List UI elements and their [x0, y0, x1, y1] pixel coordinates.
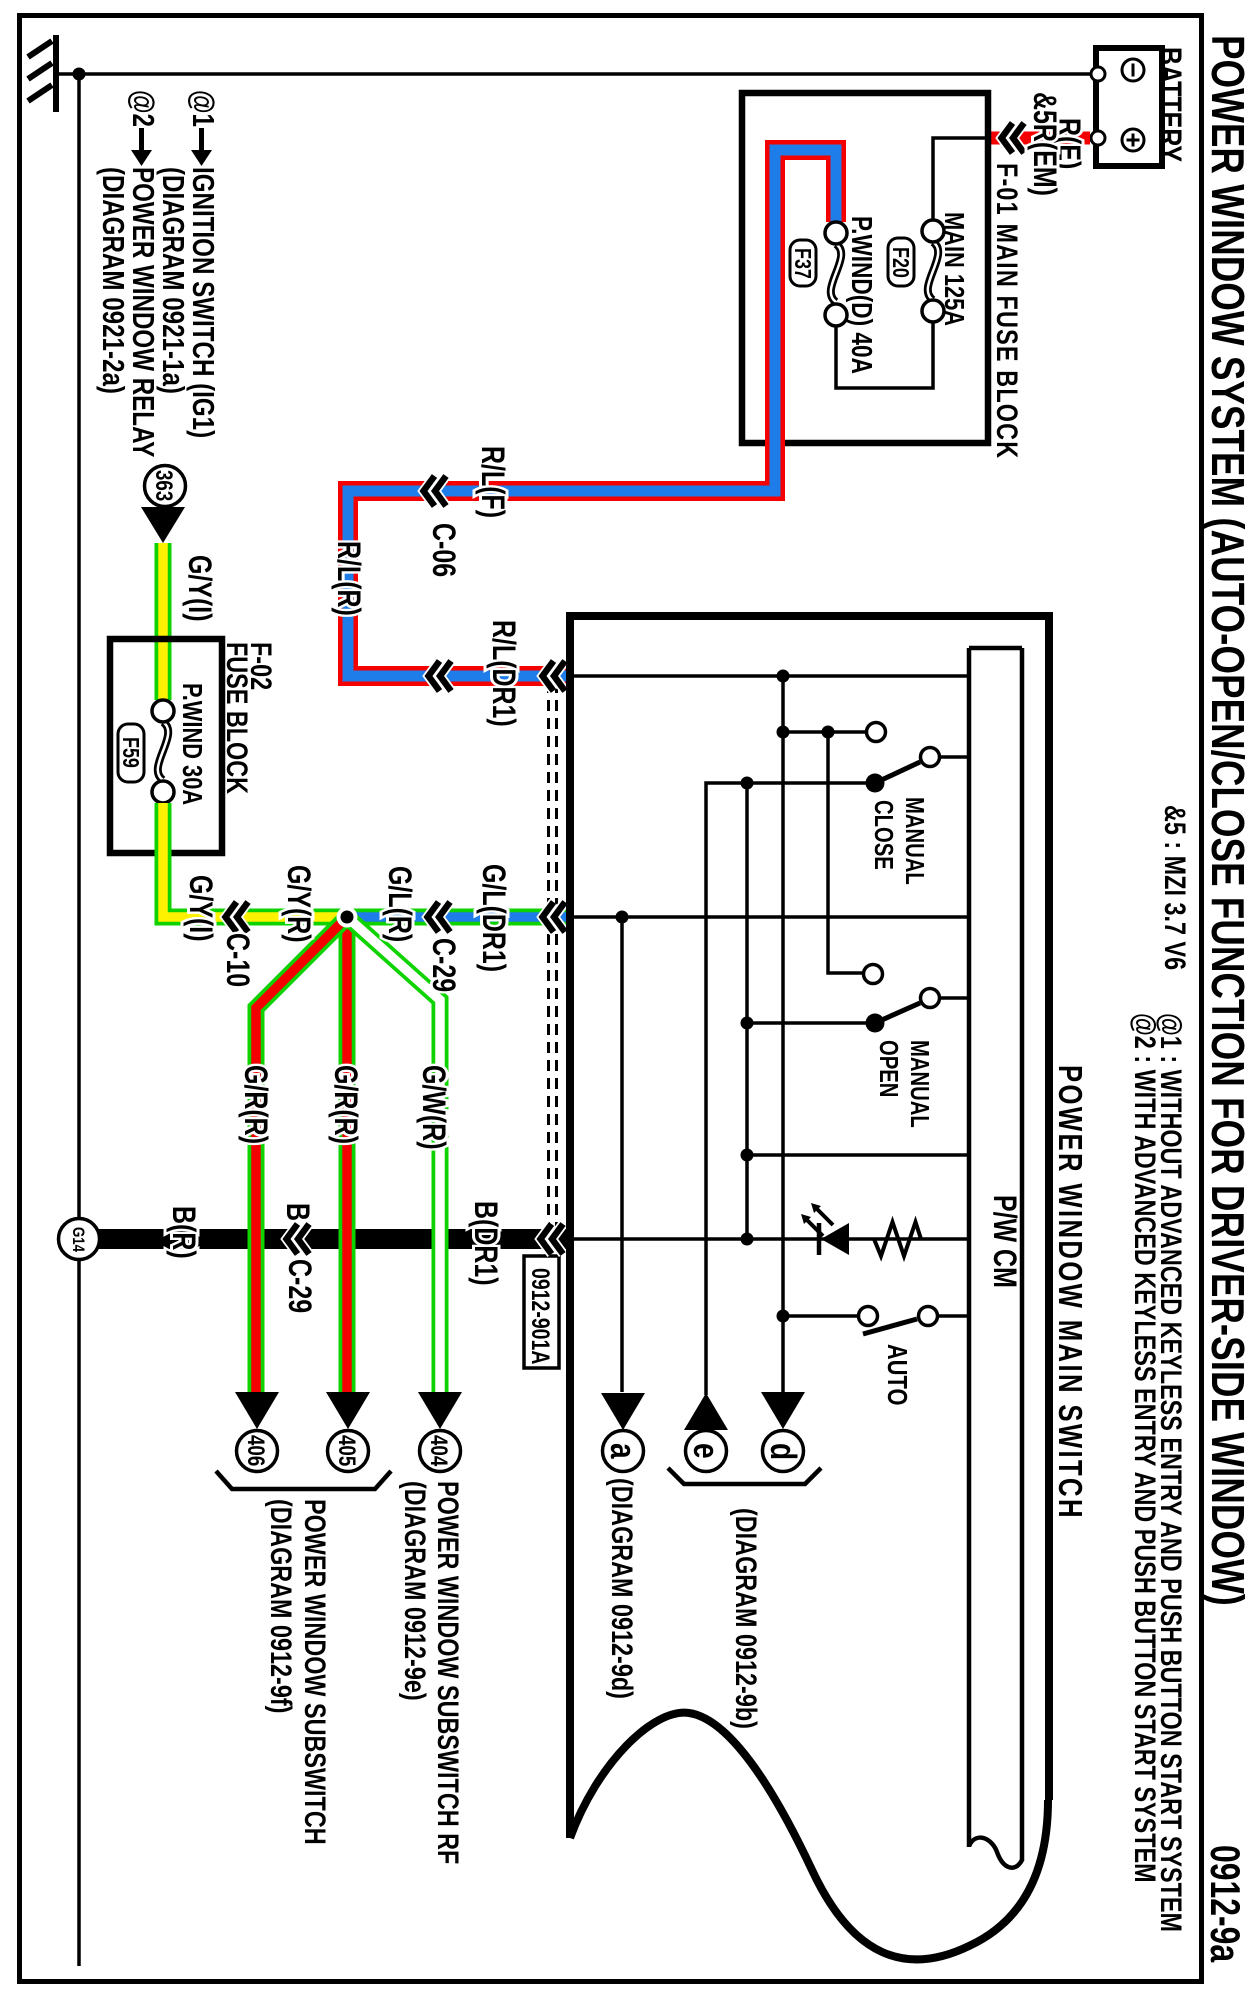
svg-text:POWER WINDOW SUBSWITCH RF: POWER WINDOW SUBSWITCH RF [431, 1481, 464, 1864]
svg-text:B: B [279, 1203, 315, 1221]
svg-text:@2: @2 [126, 90, 161, 127]
svg-text:C-06: C-06 [425, 523, 461, 577]
svg-text:e: e [686, 1443, 726, 1459]
svg-text:&5 : MZI 3.7 V6: &5 : MZI 3.7 V6 [1158, 805, 1191, 970]
svg-text:0912-9a: 0912-9a [1202, 1845, 1245, 1962]
svg-text:G/Y(I): G/Y(I) [182, 875, 218, 942]
svg-text:F59: F59 [117, 737, 143, 768]
svg-text:405: 405 [333, 1435, 360, 1466]
svg-text:C-10: C-10 [219, 933, 255, 987]
svg-text:G/R(R): G/R(R) [327, 1065, 363, 1144]
svg-text:363: 363 [150, 470, 177, 501]
svg-text:d: d [763, 1443, 803, 1460]
svg-text:MANUAL: MANUAL [900, 797, 929, 885]
svg-text:G/W(R): G/W(R) [415, 1065, 451, 1150]
svg-text:POWER WINDOW SUBSWITCH: POWER WINDOW SUBSWITCH [298, 1499, 331, 1845]
svg-text:F37: F37 [789, 248, 815, 279]
svg-text:(DIAGRAM 0912-9f): (DIAGRAM 0912-9f) [264, 1499, 297, 1713]
svg-text:AUTO: AUTO [881, 1344, 912, 1405]
svg-text:B(DR1): B(DR1) [467, 1201, 503, 1286]
svg-text:406: 406 [242, 1435, 269, 1466]
svg-text:P/W CM: P/W CM [986, 1195, 1022, 1288]
svg-text:&5R(EM): &5R(EM) [1026, 92, 1062, 196]
svg-text:(DIAGRAM 0921-2a): (DIAGRAM 0921-2a) [96, 167, 131, 394]
svg-text:(DIAGRAM 0912-9e): (DIAGRAM 0912-9e) [398, 1481, 431, 1701]
svg-text:a: a [603, 1443, 643, 1460]
svg-text:MAIN 125A: MAIN 125A [938, 212, 969, 326]
svg-text:G/Y(I): G/Y(I) [181, 555, 217, 622]
svg-text:CLOSE: CLOSE [869, 800, 898, 870]
svg-text:0912-901A: 0912-901A [526, 1268, 554, 1364]
svg-text:R/L(F): R/L(F) [474, 446, 510, 518]
svg-text:@1: @1 [186, 90, 221, 127]
svg-text:F-01 MAIN FUSE BLOCK: F-01 MAIN FUSE BLOCK [990, 163, 1023, 459]
svg-text:(DIAGRAM 0912-9b): (DIAGRAM 0912-9b) [729, 1508, 762, 1729]
svg-text:B(R): B(R) [165, 1206, 201, 1259]
svg-text:R/L(R): R/L(R) [330, 541, 366, 616]
svg-text:G/R(R): G/R(R) [237, 1065, 273, 1144]
svg-text:G/L(R): G/L(R) [381, 866, 417, 942]
svg-text:BATTERY: BATTERY [1151, 47, 1187, 162]
svg-text:@2 : WITH ADVANCED KEYLESS ENT: @2 : WITH ADVANCED KEYLESS ENTRY AND PUS… [1128, 1013, 1161, 1883]
svg-text:POWER WINDOW MAIN SWITCH: POWER WINDOW MAIN SWITCH [1051, 1065, 1088, 1520]
svg-text:C-29: C-29 [425, 938, 461, 992]
svg-text:G/L(DR1): G/L(DR1) [475, 864, 511, 972]
svg-text:F20: F20 [887, 247, 913, 278]
svg-text:404: 404 [425, 1435, 452, 1466]
svg-text:P.WIND(D) 40A: P.WIND(D) 40A [845, 216, 878, 374]
svg-text:MANUAL: MANUAL [905, 1040, 934, 1128]
svg-text:(DIAGRAM 0912-9d): (DIAGRAM 0912-9d) [605, 1478, 638, 1699]
svg-text:FUSE BLOCK: FUSE BLOCK [220, 642, 253, 795]
svg-text:R/L(DR1): R/L(DR1) [485, 620, 521, 727]
svg-text:POWER WINDOW SYSTEM (AUTO-OPEN: POWER WINDOW SYSTEM (AUTO-OPEN/CLOSE FUN… [1202, 35, 1245, 1606]
svg-text:G/Y(R): G/Y(R) [280, 865, 316, 943]
svg-text:C-29: C-29 [281, 1259, 317, 1313]
svg-text:G14: G14 [69, 1227, 88, 1253]
svg-text:P.WIND 30A: P.WIND 30A [176, 683, 207, 805]
svg-text:OPEN: OPEN [874, 1040, 903, 1097]
